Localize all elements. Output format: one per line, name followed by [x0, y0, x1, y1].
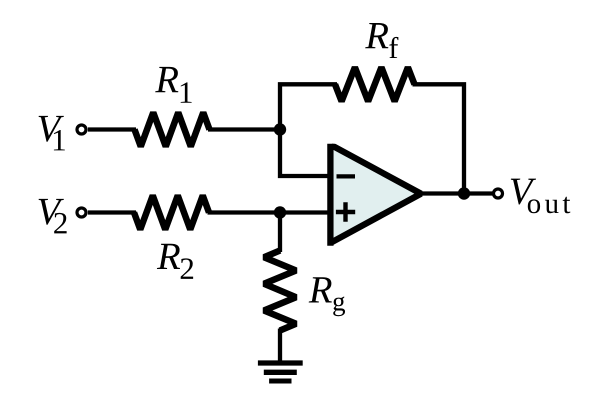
terminal V1	[77, 125, 86, 134]
wire op-amp output to Vout	[420, 191, 493, 195]
wire node A down to inverting input	[280, 127, 333, 176]
label V1	[39, 116, 65, 151]
op-amp inverting input minus sign	[337, 174, 356, 178]
wire V2 to R2	[88, 210, 136, 214]
op-amp non-inverting input plus sign	[336, 202, 355, 221]
op-amp U1	[330, 144, 421, 246]
label Vout	[511, 179, 571, 214]
wire V1 to R1	[88, 127, 136, 131]
label R1	[155, 67, 191, 103]
resistor R1	[135, 113, 210, 147]
wire R2 through node B to non-inverting input	[208, 210, 334, 214]
ground	[258, 363, 303, 381]
label R2	[157, 244, 193, 279]
label Rg	[309, 277, 345, 316]
terminal Vout	[494, 189, 503, 198]
label Rf	[365, 23, 398, 58]
wire R1 to node A	[208, 127, 280, 131]
wire Rf to output node	[413, 84, 465, 196]
output node junction dot	[458, 187, 470, 199]
resistor Rg	[264, 251, 296, 331]
wire node B down to Rg	[278, 210, 282, 252]
resistor R2	[134, 196, 209, 230]
node A junction dot	[274, 123, 286, 135]
wire Rg to ground	[278, 329, 282, 364]
terminal V2	[77, 208, 86, 217]
wire node A up to Rf	[280, 84, 337, 132]
resistor Rf	[335, 67, 415, 101]
label V2	[39, 199, 67, 234]
node B junction dot	[274, 206, 286, 218]
